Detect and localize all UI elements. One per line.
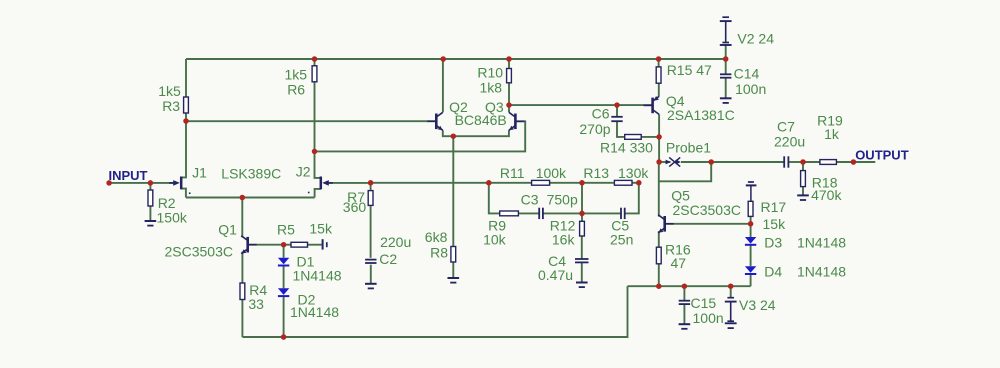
junction C15 / lower rail (682, 283, 688, 289)
wire Q5 collector riser (658, 162, 660, 217)
junction R17 / D3 / Q5 base (748, 221, 754, 227)
svg-text:1N4148: 1N4148 (293, 268, 342, 284)
wire J2 drain node to Q3 base (315, 121, 526, 151)
value 6k8 (R8) (425, 229, 448, 245)
wire R3 top lead (185, 59, 187, 97)
value 25n (C5) (610, 232, 633, 248)
wire probe bypass loop (659, 162, 711, 181)
wire C5 up to feedback (625, 183, 639, 214)
label R15 47 (667, 62, 712, 78)
svg-text:220u: 220u (774, 134, 805, 150)
wire INPUT lead (109, 182, 150, 184)
wire Q5 base lead (665, 223, 751, 225)
svg-text:2SA1381C: 2SA1381C (667, 107, 735, 123)
wire feedback line left (371, 182, 533, 184)
svg-text:R10: R10 (477, 65, 503, 81)
wire bottom rail (242, 286, 627, 337)
probe Probe1 symbol (666, 157, 681, 166)
wire C15 to ground (683, 304, 685, 324)
wire R12 branch drop (581, 183, 583, 214)
wire C6 to R14 (617, 121, 625, 137)
wire probe line right (681, 161, 711, 163)
wire R3 node to Q2 base (186, 120, 436, 122)
svg-text:V3 24: V3 24 (739, 297, 776, 313)
value 10k (R9) (483, 232, 507, 248)
junction R16 / lower rail (656, 283, 662, 289)
wire R10 top lead (508, 59, 510, 69)
wire D2 cathode lead (283, 296, 285, 337)
node INPUT terminal (106, 180, 112, 186)
wire Q3 collector lead (508, 105, 510, 112)
svg-text:270p: 270p (579, 121, 610, 137)
battery V3 (725, 298, 737, 328)
svg-text:220u: 220u (380, 234, 411, 250)
label C4 (548, 253, 566, 269)
wire output coupling line (711, 161, 784, 163)
wire node to C5 (582, 212, 621, 214)
label Q5 (671, 188, 690, 204)
terminal at R17 (open pin) (746, 182, 757, 201)
label C5 (611, 218, 629, 234)
diode D1 (278, 258, 289, 266)
wire R8 long lead (452, 136, 454, 246)
diode D3 (745, 237, 756, 245)
wire R15 top lead (658, 59, 660, 67)
junction top rail / Q2 collector (440, 56, 446, 62)
label J2 (296, 164, 311, 180)
label 2SC3503C (Q5) (673, 202, 742, 218)
wire J1 gate lead (150, 182, 174, 184)
label D2 (298, 292, 316, 308)
wire R7 to C2 (370, 205, 372, 257)
ground under C4 (576, 283, 588, 288)
resistor R9 (500, 211, 519, 216)
svg-text:R6: R6 (287, 82, 305, 98)
resistor R2 (148, 190, 153, 206)
svg-text:R11: R11 (500, 165, 525, 181)
wire R2 bottom lead (149, 206, 151, 221)
transistor Q1 (2SC3503C) (241, 236, 257, 254)
junction R10 / Q3 collector / base line (506, 102, 512, 108)
label R10 (477, 65, 503, 81)
diode D4 (745, 266, 756, 274)
value 1N4148 (D4) (797, 264, 846, 280)
junction R7 tap (368, 180, 374, 186)
value 360 (R7) (343, 199, 367, 215)
wire R19 left lead (803, 161, 820, 163)
wire C2 to ground (370, 265, 372, 284)
wire R8 to ground (452, 262, 454, 278)
resistor R3 (184, 97, 189, 113)
label C14 (734, 66, 760, 82)
value 130k (R13) (618, 165, 649, 181)
svg-text:C15: C15 (691, 295, 717, 311)
resistor R16 (656, 247, 661, 264)
wire R16 bottom lead (658, 264, 660, 286)
svg-text:750p: 750p (547, 192, 578, 208)
resistor R13 (614, 180, 632, 185)
value 33 (R4) (248, 296, 264, 312)
junction C6 tap on base line (614, 102, 620, 108)
value 270p (C6) (579, 121, 610, 137)
capacitor C5 (621, 208, 625, 219)
wire R5 right lead (308, 244, 322, 246)
label Q3 (485, 99, 504, 115)
svg-text:1k: 1k (824, 126, 840, 142)
wire R12 top lead (581, 213, 583, 221)
wire Q1 collector riser (241, 198, 243, 238)
label R2 (158, 195, 176, 211)
label V3 24 (739, 297, 776, 313)
svg-text:OUTPUT: OUTPUT (855, 148, 909, 163)
label Q2 (449, 99, 468, 115)
wire R9 to C3 (518, 212, 538, 214)
junction C7 / R18 (800, 159, 806, 165)
wire R18 top lead (802, 162, 804, 171)
svg-text:100n: 100n (693, 310, 724, 326)
svg-text:J2: J2 (296, 164, 311, 180)
svg-text:470k: 470k (811, 187, 842, 203)
wire C15 top lead (683, 286, 685, 301)
JFET J2 substrate mark (308, 192, 310, 194)
capacitor C15 (679, 301, 690, 304)
battery V2 (720, 17, 732, 45)
wire J1-J2 source bar (186, 197, 315, 199)
capacitor C2 (365, 260, 376, 263)
wire R7 top lead (370, 183, 372, 191)
wire R4 to bottom rail (241, 300, 243, 338)
value 100n (C15) (693, 310, 724, 326)
label R12 (550, 218, 576, 234)
wire D3-D4 link (750, 245, 752, 266)
label R16 (665, 242, 691, 258)
wire C6 tap lead (616, 105, 618, 117)
resistor R4 (240, 283, 245, 300)
capacitor C6 (611, 117, 622, 121)
label D3 (764, 235, 782, 251)
svg-text:C2: C2 (379, 251, 397, 267)
label 2SA1381C (Q4) (667, 107, 735, 123)
resistor R11 (532, 180, 550, 185)
wire D1-D2 link (283, 266, 285, 289)
label R4 (249, 282, 267, 298)
resistor R17 (748, 201, 753, 216)
capacitor C14 (720, 74, 731, 77)
label LSK389C (221, 166, 281, 182)
wire D4 to lower rail (750, 274, 752, 286)
value 1k (R19) (824, 126, 840, 142)
junction emitter bar / R8 (451, 133, 457, 139)
label INPUT (109, 168, 148, 183)
svg-text:R8: R8 (430, 245, 448, 261)
label R13 (583, 165, 609, 181)
value 1N4148 (D3) (797, 235, 846, 251)
capacitor C7 (784, 156, 788, 167)
value 15k (R5) (309, 221, 333, 237)
resistor R19 (820, 160, 837, 165)
label R11 (500, 165, 525, 181)
svg-text:BC846B: BC846B (455, 112, 507, 128)
value 1k5 (R6) (285, 67, 308, 83)
svg-text:10k: 10k (483, 232, 507, 248)
junction J2 drain node (312, 149, 318, 155)
label R6 (287, 82, 305, 98)
JFET J1 (LSK389C) (169, 177, 181, 190)
ground under C15 (679, 324, 691, 329)
label D4 (764, 264, 782, 280)
wire J1 source lead (181, 189, 186, 198)
wire probe line left (659, 161, 670, 163)
label R7 (347, 189, 365, 205)
junction probe left node (656, 159, 662, 165)
label R14 330 (600, 140, 653, 156)
value 220u (C2) (380, 234, 411, 250)
wire R18 to ground (802, 187, 804, 196)
capacitor C4 (575, 259, 589, 262)
svg-text:25n: 25n (610, 232, 633, 248)
svg-text:R3: R3 (162, 98, 180, 114)
svg-text:1N4148: 1N4148 (290, 304, 339, 320)
wire base line to Q4 (509, 104, 653, 106)
wire Q1 emitter to R4 (241, 252, 243, 283)
svg-text:C7: C7 (777, 119, 795, 135)
junction top rail / R10 (506, 56, 512, 62)
label BC846B (455, 112, 507, 128)
label D1 (297, 254, 315, 270)
resistor R12 (580, 221, 585, 236)
junction feedback / R9 branch (486, 180, 492, 186)
wire R14 right lead (641, 136, 659, 138)
svg-text:6k8: 6k8 (425, 229, 448, 245)
ground under R18 (797, 195, 809, 200)
transistor Q3 (BC846B) (509, 112, 525, 130)
wire D1 anode lead (283, 245, 285, 258)
value 750p (C3) (547, 192, 578, 208)
svg-text:2SC3503C: 2SC3503C (673, 202, 742, 218)
junction R2 tap (148, 180, 154, 186)
wire Q2 collector riser (442, 59, 444, 112)
svg-text:R13: R13 (583, 165, 609, 181)
junction top rail / R6 (312, 56, 318, 62)
wire V3 top lead (730, 286, 732, 298)
label R5 (277, 222, 295, 238)
label OUTPUT (855, 148, 909, 163)
junction D2 / bottom rail (281, 334, 287, 340)
wire J2 drain riser (315, 151, 321, 178)
label C15 (691, 295, 717, 311)
wire J2 source lead (315, 189, 321, 198)
wire lower rail (628, 285, 751, 287)
ground under R8 (448, 278, 460, 283)
svg-text:15k: 15k (309, 221, 333, 237)
transistor Q4 (2SA1381C) (644, 96, 660, 114)
value 150k (R2) (157, 210, 188, 226)
svg-text:1k5: 1k5 (285, 67, 308, 83)
wire C14 top lead (725, 59, 727, 74)
svg-text:47: 47 (671, 255, 687, 271)
junction V3 / lower rail (728, 283, 734, 289)
value 470k (R18) (811, 187, 842, 203)
svg-text:2SC3503C: 2SC3503C (165, 244, 234, 260)
JFET J2 (LSK389C) (321, 177, 333, 190)
junction Q1 base / R5 / D1 (281, 242, 287, 248)
wire feedback line mid (550, 182, 614, 184)
wire R19 right lead (836, 161, 875, 163)
label 2SC3503C (Q1) (165, 244, 234, 260)
resistor R5 (291, 242, 308, 247)
svg-text:130k: 130k (618, 165, 649, 181)
resistor R18 (801, 171, 806, 187)
transistor Q2 (BC846B) (427, 112, 443, 130)
svg-text:C14: C14 (734, 66, 760, 82)
label R8 (430, 245, 448, 261)
diode D2 (278, 288, 289, 296)
wire R2 top lead (149, 183, 151, 190)
svg-text:C3: C3 (521, 192, 539, 208)
svg-text:R14 330: R14 330 (600, 140, 653, 156)
wire Q2-Q3 emitter bar (443, 130, 509, 136)
wire J2 gate lead (328, 182, 370, 184)
svg-text:D3: D3 (764, 235, 782, 251)
label Probe1 (666, 140, 711, 156)
label C7 (777, 119, 795, 135)
label Q1 (218, 222, 237, 238)
value 1N4148 (D2) (290, 304, 339, 320)
svg-text:1N4148: 1N4148 (797, 235, 846, 251)
junction R14 / Q4 collector (656, 134, 662, 140)
wire R17 bottom lead (750, 216, 752, 223)
svg-text:150k: 150k (157, 210, 188, 226)
svg-text:R15 47: R15 47 (667, 62, 712, 78)
wire R6 bottom long lead (314, 82, 316, 151)
value 1N4148 (D1) (293, 268, 342, 284)
value 100k (R11) (536, 165, 567, 181)
wire Q1 base lead (248, 244, 284, 246)
JFET J1 substrate mark (189, 192, 191, 194)
wire R3 bottom to node (185, 114, 187, 122)
label V2 24 (737, 31, 774, 47)
wire Q4 collector to probe node (658, 114, 660, 162)
label R3 (162, 98, 180, 114)
wire R12 to C4 (581, 236, 583, 259)
junction R19 / OUTPUT stub (851, 159, 857, 165)
wire R6 top lead (314, 59, 316, 66)
wire D3 anode lead (750, 224, 752, 237)
wire feedback line right (632, 182, 639, 184)
svg-text:33: 33 (248, 296, 264, 312)
svg-text:V2 24: V2 24 (737, 31, 774, 47)
label J1 (192, 165, 207, 181)
ground under R2 (145, 221, 157, 226)
ground under C2 (365, 284, 377, 289)
svg-text:LSK389C: LSK389C (221, 166, 281, 182)
resistor R8 (451, 247, 456, 263)
junction source bar / Q1 collector (240, 195, 246, 201)
label Q4 (666, 93, 685, 109)
wire J1 drain riser (181, 121, 186, 177)
svg-text:D4: D4 (764, 264, 782, 280)
svg-text:J1: J1 (192, 165, 207, 181)
ground under C14 (720, 98, 732, 103)
label C6 (592, 106, 610, 122)
wire C14 to ground (725, 78, 727, 99)
junction top rail / V2 / C14 (723, 56, 729, 62)
wire V2 bottom lead (725, 45, 727, 59)
svg-text:16k: 16k (552, 232, 576, 248)
label C3 (521, 192, 539, 208)
resistor R10 (507, 69, 512, 83)
svg-text:Probe1: Probe1 (666, 140, 711, 156)
svg-text:C6: C6 (592, 106, 610, 122)
svg-text:15k: 15k (763, 216, 787, 232)
resistor R6 (312, 66, 317, 82)
wire R9 branch drop (489, 183, 500, 214)
value 1k5 (R3) (158, 83, 181, 99)
wire C3 to node (544, 212, 583, 214)
capacitor C3 (539, 208, 543, 219)
label R17 (761, 199, 787, 215)
resistor R14 (625, 135, 642, 140)
svg-text:0.47u: 0.47u (538, 267, 573, 283)
wire R10 bottom lead (508, 83, 510, 105)
value 100n (C14) (735, 81, 766, 97)
wire C4 to ground (581, 262, 583, 282)
wire Q5 emitter to R16 (658, 231, 660, 247)
junction top rail / R15 (656, 56, 662, 62)
transistor Q5 (2SC3503C) (658, 215, 674, 233)
svg-text:100n: 100n (735, 81, 766, 97)
svg-text:Q1: Q1 (218, 222, 237, 238)
wire R5 left lead (284, 244, 291, 246)
junction R13 / C5 corner (636, 180, 642, 186)
value 1k8 (R10) (480, 80, 503, 96)
value 16k (R12) (552, 232, 576, 248)
junction output node (708, 159, 714, 165)
wire top supply rail (186, 58, 726, 60)
junction feedback / R12 branch (579, 180, 585, 186)
svg-text:100k: 100k (536, 165, 567, 181)
svg-text:INPUT: INPUT (109, 168, 148, 183)
wire R15 to Q4 emitter (658, 83, 660, 96)
junction R9-C3 / R12 / C5 node (579, 211, 585, 217)
svg-text:R17: R17 (761, 199, 787, 215)
svg-text:1k8: 1k8 (480, 80, 503, 96)
label R9 (488, 218, 506, 234)
svg-text:R5: R5 (277, 222, 295, 238)
label R19 (817, 113, 843, 129)
value 15k (R17) (763, 216, 787, 232)
value 47 (R16) (671, 255, 687, 271)
resistor R15 (656, 67, 661, 83)
resistor R7 (368, 191, 373, 206)
value 0.47u (C4) (538, 267, 573, 283)
terminal at R5 (open pin) (323, 239, 327, 249)
label R18 (812, 175, 838, 191)
label C2 (379, 251, 397, 267)
svg-text:360: 360 (343, 199, 367, 215)
svg-text:1k5: 1k5 (158, 83, 181, 99)
wire C7 to R18 node (788, 161, 803, 163)
svg-text:1N4148: 1N4148 (797, 264, 846, 280)
junction R3 / J1 drain / Q2 base (183, 118, 189, 124)
value 220u (C7) (774, 134, 805, 150)
